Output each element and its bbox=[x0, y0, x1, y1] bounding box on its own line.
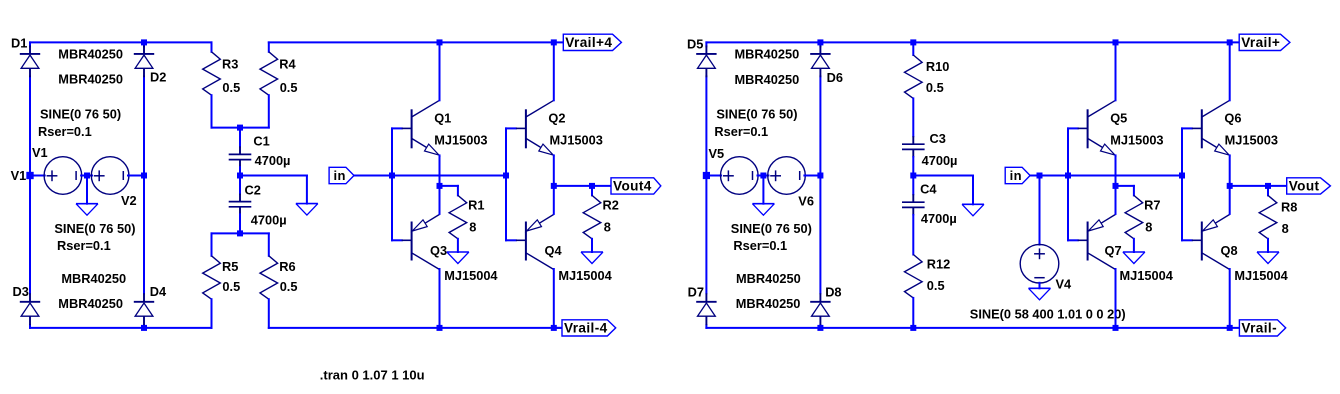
wire node to V1 bbox=[30, 175, 45, 177]
svg-text:C2: C2 bbox=[245, 182, 261, 197]
flag Vrail-4 bbox=[562, 320, 616, 336]
transistor Q1 bbox=[411, 109, 413, 148]
wire output line bbox=[554, 185, 611, 187]
svg-text:Vout: Vout bbox=[1289, 179, 1320, 194]
svg-text:MBR40250: MBR40250 bbox=[58, 46, 123, 61]
ground of V1/V2 bbox=[76, 203, 98, 205]
svg-text:0.5: 0.5 bbox=[927, 278, 945, 293]
svg-text:V2: V2 bbox=[121, 193, 137, 208]
wire output line right bbox=[1230, 185, 1287, 187]
junction top rail at D2 bbox=[141, 39, 147, 45]
svg-text:MJ15003: MJ15003 bbox=[550, 132, 603, 147]
junction emitter node right pair bbox=[1113, 183, 1119, 189]
voltage source V5 bbox=[721, 157, 759, 195]
flag Vrail+ bbox=[1239, 34, 1290, 50]
wire Q3 collector bbox=[439, 269, 441, 328]
svg-text:0.5: 0.5 bbox=[280, 80, 298, 95]
svg-text:Vrail+4: Vrail+4 bbox=[565, 35, 612, 50]
svg-text:Rser=0.1: Rser=0.1 bbox=[38, 124, 92, 139]
svg-text:MJ15004: MJ15004 bbox=[558, 268, 612, 283]
svg-text:R7: R7 bbox=[1144, 197, 1160, 212]
wire Q7 emitter bbox=[1115, 186, 1117, 214]
svg-text:D1: D1 bbox=[11, 36, 27, 51]
svg-text:0.5: 0.5 bbox=[926, 80, 944, 95]
capacitor C2 bbox=[239, 176, 241, 194]
wire R5 bottom bbox=[211, 299, 213, 328]
wire Q3 emitter bbox=[439, 186, 441, 214]
diode D2 bbox=[143, 45, 145, 54]
resistor R3 bbox=[211, 42, 213, 51]
diode D7 bbox=[705, 293, 707, 302]
svg-text:R4: R4 bbox=[279, 57, 296, 72]
wire mid to ground elbow right bbox=[913, 175, 973, 177]
svg-text:MJ15004: MJ15004 bbox=[1234, 268, 1288, 283]
svg-text:MJ15003: MJ15003 bbox=[434, 132, 487, 147]
junction at V6 right bbox=[817, 173, 823, 179]
wire V-line to D4 bbox=[143, 176, 145, 294]
svg-text:R3: R3 bbox=[222, 57, 238, 72]
svg-text:D5: D5 bbox=[687, 36, 703, 51]
junction C1 top bbox=[237, 125, 243, 131]
wire Q4 emitter bbox=[553, 186, 555, 214]
junction in-line Q2 base bbox=[503, 173, 509, 179]
resistor R10 bbox=[912, 42, 914, 55]
junction sources mid bbox=[760, 173, 766, 179]
wire V6 to D column bbox=[804, 175, 820, 177]
wire Q1 emitter bbox=[439, 155, 441, 186]
wire bottom rail right segment bbox=[269, 327, 562, 329]
svg-text:MJ15003: MJ15003 bbox=[1110, 132, 1163, 147]
svg-text:D3: D3 bbox=[13, 284, 29, 299]
wire D2 top bbox=[143, 42, 145, 46]
junction at V2 right bbox=[141, 173, 147, 179]
transistor Q7 bbox=[1087, 222, 1089, 261]
svg-text:MJ15004: MJ15004 bbox=[1120, 268, 1174, 283]
wire Q5 collector bbox=[1115, 42, 1117, 100]
diode D1 bbox=[29, 45, 31, 54]
svg-text:Q4: Q4 bbox=[545, 243, 563, 258]
ground at C1/C2 mid bbox=[296, 203, 318, 205]
svg-text:R6: R6 bbox=[279, 259, 295, 274]
wire bottom rail left segment bbox=[30, 327, 212, 329]
svg-text:Q2: Q2 bbox=[548, 111, 565, 126]
junction at V5 left bbox=[703, 172, 710, 179]
voltage source V4 bbox=[1020, 244, 1059, 283]
svg-text:8: 8 bbox=[469, 220, 476, 235]
wire D6 to V-line bbox=[819, 76, 821, 175]
wire node to R7 bbox=[1116, 185, 1134, 187]
wire C2 to R5 bbox=[212, 232, 241, 234]
svg-text:D6: D6 bbox=[827, 70, 843, 85]
junction output node bbox=[551, 183, 557, 189]
wire Q2 collector bbox=[553, 42, 555, 100]
ground of R2 bbox=[581, 251, 603, 253]
wire D3 to bottom rail bbox=[29, 325, 31, 328]
wire R7 to ground bbox=[1133, 239, 1135, 252]
transistor Q4 bbox=[525, 222, 527, 261]
resistor R8 bbox=[1267, 186, 1269, 196]
junction C1/C2 mid bbox=[237, 173, 243, 179]
wire Q4 collector bbox=[553, 269, 555, 328]
svg-text:4700µ: 4700µ bbox=[921, 211, 957, 226]
svg-text:Rser=0.1: Rser=0.1 bbox=[57, 238, 111, 253]
svg-text:Q5: Q5 bbox=[1110, 111, 1127, 126]
svg-text:Rser=0.1: Rser=0.1 bbox=[714, 124, 768, 139]
svg-text:MBR40250: MBR40250 bbox=[735, 72, 800, 87]
diode D5 bbox=[705, 45, 707, 54]
svg-text:D4: D4 bbox=[150, 284, 167, 299]
wire in to base column bbox=[354, 175, 392, 177]
junction rail Q1 collector bbox=[437, 39, 443, 45]
ground of R7 bbox=[1123, 251, 1145, 253]
svg-text:R5: R5 bbox=[222, 259, 238, 274]
wire node to V5 bbox=[706, 175, 721, 177]
diode D6 bbox=[819, 45, 821, 54]
wire R8 to ground bbox=[1267, 239, 1269, 252]
wire R1 to ground bbox=[457, 239, 459, 252]
wire V5 to mid bbox=[758, 175, 769, 177]
wire D5 to V-line bbox=[705, 76, 707, 175]
junction at V1 left bbox=[26, 172, 33, 179]
flag Vrail- bbox=[1239, 320, 1285, 336]
svg-text:C4: C4 bbox=[920, 182, 937, 197]
wire D2 to V-line bbox=[143, 76, 145, 175]
junction emitter node left pair bbox=[437, 183, 443, 189]
wire mid to ground bbox=[762, 176, 764, 204]
port flag in right bbox=[1005, 167, 1030, 183]
svg-text:.tran 0 1.07 1 10u: .tran 0 1.07 1 10u bbox=[320, 368, 425, 383]
svg-text:Q7: Q7 bbox=[1105, 243, 1122, 258]
voltage source V2 bbox=[91, 157, 129, 195]
wire Q1/Q3 base vertical bbox=[391, 128, 393, 240]
svg-text:in: in bbox=[1010, 168, 1022, 183]
junction rail Q5 collector bbox=[1113, 39, 1119, 45]
svg-text:8: 8 bbox=[604, 220, 611, 235]
wire C2 to R6 bbox=[240, 232, 269, 234]
transistor Q8 bbox=[1201, 222, 1203, 261]
svg-text:V5: V5 bbox=[709, 146, 725, 161]
wire in-line bbox=[392, 175, 506, 177]
voltage source V6 bbox=[768, 157, 806, 195]
junction bottom rail Q8 bbox=[1227, 325, 1233, 331]
resistor R5 bbox=[203, 256, 221, 299]
svg-text:R2: R2 bbox=[603, 197, 619, 212]
svg-text:MJ15004: MJ15004 bbox=[444, 268, 498, 283]
svg-text:Q6: Q6 bbox=[1224, 111, 1241, 126]
svg-text:Q3: Q3 bbox=[430, 243, 447, 258]
wire V2 to D column bbox=[128, 175, 144, 177]
junction R2 tap bbox=[589, 183, 595, 189]
wire D5 top bbox=[705, 42, 707, 46]
wire R4 bottom bbox=[268, 95, 270, 127]
flag Vrail+4 bbox=[563, 34, 621, 50]
wire top rail right circuit bbox=[706, 41, 1239, 43]
svg-text:4700µ: 4700µ bbox=[922, 153, 958, 168]
wire V4 bottom bbox=[1039, 283, 1041, 289]
capacitor C4 bbox=[912, 176, 914, 195]
capacitor C3 bbox=[912, 98, 914, 136]
svg-text:0.5: 0.5 bbox=[280, 279, 298, 294]
svg-text:MJ15003: MJ15003 bbox=[1225, 132, 1278, 147]
junction in-line Q1 base bbox=[389, 173, 395, 179]
svg-text:SINE(0 76 50): SINE(0 76 50) bbox=[54, 221, 135, 236]
flag Vout4 bbox=[611, 178, 661, 194]
transistor Q3 bbox=[411, 222, 413, 261]
svg-text:C3: C3 bbox=[930, 131, 946, 146]
junction rail Q6 collector bbox=[1227, 39, 1233, 45]
wire top rail right segment bbox=[269, 41, 564, 43]
svg-text:Vrail+: Vrail+ bbox=[1241, 35, 1280, 50]
junction bottom rail Q7 bbox=[1113, 325, 1119, 331]
wire D1 top bbox=[29, 42, 31, 46]
resistor R4 bbox=[268, 42, 270, 51]
svg-text:0.5: 0.5 bbox=[222, 80, 240, 95]
wire Q6/Q8 base vertical bbox=[1181, 128, 1183, 240]
svg-text:R8: R8 bbox=[1281, 200, 1297, 215]
svg-text:SINE(0 58 400 1.01 0 0 20): SINE(0 58 400 1.01 0 0 20) bbox=[970, 306, 1126, 321]
svg-text:V6: V6 bbox=[798, 193, 814, 208]
svg-text:MBR40250: MBR40250 bbox=[736, 271, 801, 286]
junction C3/C4 mid bbox=[910, 173, 916, 179]
wire Q6 emitter bbox=[1229, 155, 1231, 186]
svg-text:4700µ: 4700µ bbox=[255, 153, 291, 168]
ground of V4 bbox=[1029, 287, 1051, 289]
wire Q8 collector bbox=[1229, 269, 1231, 328]
svg-text:C1: C1 bbox=[253, 134, 269, 149]
voltage source V1 bbox=[44, 157, 82, 195]
resistor R1 bbox=[449, 195, 467, 238]
junction in-line Q5 base bbox=[1065, 173, 1071, 179]
ground of R1 bbox=[447, 251, 469, 253]
svg-text:in: in bbox=[334, 168, 346, 183]
svg-text:MBR40250: MBR40250 bbox=[61, 271, 126, 286]
svg-text:R1: R1 bbox=[468, 197, 484, 212]
svg-text:SINE(0 76 50): SINE(0 76 50) bbox=[40, 107, 121, 122]
junction rail Q2 collector bbox=[551, 39, 557, 45]
svg-text:V4: V4 bbox=[1056, 277, 1073, 292]
svg-text:SINE(0 76 50): SINE(0 76 50) bbox=[716, 107, 797, 122]
svg-text:Vout4: Vout4 bbox=[613, 179, 652, 194]
svg-text:4700µ: 4700µ bbox=[251, 213, 287, 228]
svg-text:8: 8 bbox=[1282, 221, 1289, 236]
wire Q1 collector bbox=[439, 42, 441, 100]
wire D4 to bottom rail bbox=[143, 325, 145, 328]
svg-text:R12: R12 bbox=[927, 257, 950, 272]
junction bottom rail at D8 bbox=[817, 325, 823, 331]
junction in-line Q6 base bbox=[1179, 173, 1185, 179]
svg-text:Vrail-: Vrail- bbox=[1241, 321, 1277, 336]
wire V-line to D7 bbox=[705, 176, 707, 294]
resistor R6 bbox=[260, 256, 278, 299]
svg-text:MBR40250: MBR40250 bbox=[735, 47, 800, 62]
wire D7 to bottom rail bbox=[705, 325, 707, 328]
resistor R7 bbox=[1125, 195, 1143, 238]
svg-text:V1: V1 bbox=[11, 168, 27, 183]
junction R10 top bbox=[910, 39, 916, 45]
svg-text:R10: R10 bbox=[926, 59, 949, 74]
junction C2 bottom bbox=[237, 230, 243, 236]
wire mid to ground elbow bbox=[240, 175, 307, 177]
svg-text:D2: D2 bbox=[150, 69, 166, 84]
svg-text:Q8: Q8 bbox=[1221, 243, 1238, 258]
wire V1 to mid bbox=[81, 175, 92, 177]
wire R12 bottom bbox=[912, 298, 914, 328]
wire bottom rail right circuit bbox=[706, 327, 1239, 329]
svg-text:Rser=0.1: Rser=0.1 bbox=[733, 238, 787, 253]
wire in to V4 node bbox=[1030, 175, 1039, 177]
wire Q6 collector bbox=[1229, 42, 1231, 100]
transistor Q2 bbox=[525, 109, 527, 148]
svg-text:Vrail-4: Vrail-4 bbox=[564, 321, 608, 336]
svg-text:SINE(0 76 50): SINE(0 76 50) bbox=[731, 221, 812, 236]
svg-text:V1: V1 bbox=[32, 145, 48, 160]
wire Q7 collector bbox=[1115, 269, 1117, 328]
wire D8 to bottom rail bbox=[819, 325, 821, 328]
diode D8 bbox=[819, 293, 821, 302]
wire Q2/Q4 base vertical bbox=[505, 128, 507, 240]
wire top rail left segment bbox=[30, 41, 212, 43]
svg-text:Q1: Q1 bbox=[434, 111, 451, 126]
wire Q8 emitter bbox=[1229, 186, 1231, 214]
ground at C3/C4 mid bbox=[962, 203, 984, 205]
junction R12 bottom bbox=[910, 325, 916, 331]
junction V4 tap bbox=[1037, 173, 1043, 179]
ground of V5/V6 bbox=[752, 203, 774, 205]
svg-text:MBR40250: MBR40250 bbox=[736, 296, 801, 311]
svg-text:MBR40250: MBR40250 bbox=[58, 72, 123, 87]
wire R2 to ground bbox=[591, 239, 593, 252]
junction bottom rail at D4 bbox=[141, 325, 147, 331]
wire D1 to V-line bbox=[29, 76, 31, 175]
wire V-line to D3 bbox=[29, 176, 31, 294]
junction bottom rail Q4 bbox=[551, 325, 557, 331]
svg-text:0.5: 0.5 bbox=[222, 279, 240, 294]
wire D6 top bbox=[819, 42, 821, 46]
wire mid to ground bbox=[86, 176, 88, 204]
resistor R12 bbox=[905, 255, 923, 298]
wire V-line to D8 bbox=[819, 176, 821, 294]
wire Q2 emitter bbox=[553, 155, 555, 186]
wire to Vrail-4 flag bbox=[554, 327, 562, 329]
wire V4 top bbox=[1039, 176, 1041, 245]
junction R8 tap bbox=[1265, 183, 1271, 189]
port flag in bbox=[329, 167, 354, 183]
transistor Q5 bbox=[1087, 109, 1089, 148]
junction sources mid bbox=[84, 173, 90, 179]
wire in-line right bbox=[1040, 175, 1183, 177]
flag Vout bbox=[1287, 178, 1331, 194]
capacitor C1 bbox=[239, 128, 241, 147]
junction output node right bbox=[1227, 183, 1233, 189]
wire node to R1 bbox=[440, 185, 458, 187]
svg-text:D8: D8 bbox=[825, 284, 841, 299]
wire Q5 emitter bbox=[1115, 155, 1117, 186]
diode D3 bbox=[29, 293, 31, 302]
diode D4 bbox=[143, 293, 145, 302]
svg-text:8: 8 bbox=[1145, 220, 1152, 235]
transistor Q6 bbox=[1201, 109, 1203, 148]
wire R6 bottom bbox=[268, 299, 270, 328]
svg-text:D7: D7 bbox=[688, 284, 704, 299]
junction bottom rail Q3 bbox=[437, 325, 443, 331]
resistor R2 bbox=[591, 186, 593, 196]
ground of R8 bbox=[1257, 251, 1279, 253]
wire R3 bottom bbox=[211, 95, 213, 127]
wire Q5/Q7 base vertical bbox=[1067, 128, 1069, 240]
svg-text:MBR40250: MBR40250 bbox=[58, 296, 123, 311]
junction top rail at D6 bbox=[817, 39, 823, 45]
